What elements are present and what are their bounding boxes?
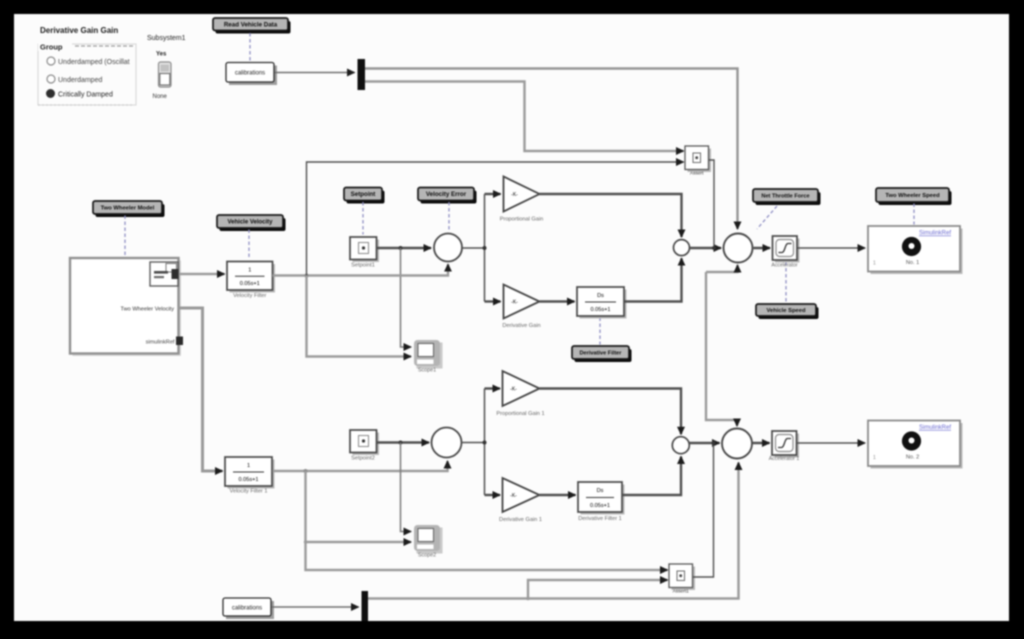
sum big sum2 — [722, 429, 752, 459]
junction — [304, 469, 308, 473]
wire split vertical 1 — [484, 194, 486, 302]
wire feedback1 to sum1 bottom — [273, 264, 449, 275]
connector to subsystem — [124, 216, 126, 257]
svg-text:0.05s+1: 0.05s+1 — [590, 307, 610, 313]
svg-text:calibrations: calibrations — [232, 605, 262, 611]
label Velocity Error — [418, 188, 477, 204]
svg-text:Scope1: Scope1 — [418, 368, 436, 374]
svg-text:Derivative Gain Gain: Derivative Gain Gain — [40, 26, 118, 35]
radio Underdamped — [47, 75, 55, 83]
svg-text:1: 1 — [248, 268, 251, 274]
label Vehicle Speed — [756, 304, 819, 319]
gain D1 — [502, 285, 540, 330]
wire TF2 to small sum2 bottom — [623, 457, 682, 496]
switch Subsystem1 — [147, 35, 186, 100]
connector to saturation1 — [785, 262, 787, 303]
svg-text:-K-: -K- — [511, 192, 518, 198]
svg-text:Vehicle Speed: Vehicle Speed — [767, 308, 806, 314]
svg-text:Velocity Filter 1: Velocity Filter 1 — [230, 489, 268, 495]
svg-text:-K-: -K- — [510, 387, 517, 393]
svg-text:Derivative Filter 1: Derivative Filter 1 — [578, 516, 622, 522]
junction — [526, 597, 530, 601]
svg-text:Group: Group — [40, 43, 63, 52]
junction — [304, 540, 307, 543]
connector to big sum1 (diagonal) — [757, 206, 777, 229]
wire setpoint1 to sum1 — [377, 247, 432, 249]
saturation saturation2 — [769, 431, 800, 462]
svg-text:Ds: Ds — [597, 488, 604, 494]
subsystem sensor sub-block — [150, 262, 179, 286]
calibration block calibrations2 — [223, 598, 274, 619]
svg-text:None: None — [153, 94, 168, 100]
svg-text:Setpoint2: Setpoint2 — [351, 456, 375, 462]
wire bar2 branch to assertion2 in2 — [528, 580, 668, 599]
sum small sum1 — [674, 240, 690, 256]
constant Setpoint2 — [350, 430, 379, 462]
label Two Wheeler Speed — [876, 188, 952, 205]
transfer function Velocity Filter 2 — [225, 457, 275, 495]
wire feedback1 up to assertion1 in2 — [307, 162, 684, 276]
svg-text:Net Throttle Force: Net Throttle Force — [761, 194, 809, 200]
wire small sum1 to big sum1 — [690, 247, 721, 249]
wire sensor to velocity filter1 — [179, 273, 225, 275]
svg-text:Accelerator: Accelerator — [771, 263, 798, 269]
label Throttle Force — [753, 189, 821, 205]
svg-text:No. 2: No. 2 — [906, 455, 919, 461]
svg-text:Derivative Filter: Derivative Filter — [580, 351, 623, 357]
connector to scope1 — [913, 204, 915, 225]
connector to calibrations1 — [249, 33, 251, 61]
wire P1 to small sum1 top — [540, 194, 682, 237]
subsystem Two Wheeler — [70, 258, 183, 356]
svg-text:Scope2: Scope2 — [418, 553, 436, 559]
scope display vehicle display 1 — [868, 226, 963, 274]
wire subsystem to velocity filter2 — [179, 308, 223, 471]
svg-text:1: 1 — [873, 455, 876, 461]
svg-text:Derivative Gain 1: Derivative Gain 1 — [499, 517, 542, 523]
transfer function Derivative TF 1 — [577, 287, 627, 319]
radio Underdamped (Oscillatory) — [47, 57, 55, 65]
scope Scope1 — [414, 340, 443, 374]
wire to D2 — [485, 494, 501, 496]
sum big sum1 — [724, 234, 753, 263]
svg-text:1: 1 — [247, 463, 250, 469]
transfer function Velocity Filter 1 — [227, 262, 275, 300]
wire sum2 out — [462, 442, 485, 444]
wire saturation2 to display2 — [797, 442, 866, 444]
saturation saturation1 — [771, 236, 799, 269]
junction — [483, 246, 487, 250]
wire cross down into big sum2 top — [706, 272, 737, 426]
svg-text:SimulinkRef: SimulinkRef — [919, 231, 951, 237]
wire big sum2 to saturation2 — [753, 442, 770, 444]
svg-text:0.05s+1: 0.05s+1 — [238, 477, 258, 483]
svg-text:Assert1: Assert1 — [673, 589, 690, 595]
svg-text:simulinkRef: simulinkRef — [146, 340, 175, 346]
gain P2 — [496, 371, 544, 417]
wire bar to assertion1 in1 — [365, 82, 684, 152]
svg-text:0.05s+1: 0.05s+1 — [590, 503, 610, 509]
svg-text:Two Wheeler Speed: Two Wheeler Speed — [885, 193, 940, 199]
junction — [305, 274, 309, 278]
label Two Wheeler Model — [93, 201, 165, 217]
svg-text:-K-: -K- — [510, 493, 517, 499]
svg-text:Velocity Filter: Velocity Filter — [233, 293, 266, 299]
wire big sum1 to saturation1 — [754, 247, 771, 249]
svg-text:Two Wheeler Velocity: Two Wheeler Velocity — [121, 307, 175, 313]
svg-text:Derivative Gain: Derivative Gain — [502, 323, 540, 329]
wire sum1 out — [463, 247, 485, 249]
calibration block calibrations1 — [226, 63, 277, 86]
wire small sum2 to big sum2 — [690, 442, 720, 444]
wire setpoint2 to sum2 — [377, 441, 430, 443]
svg-text:Underdamped (Oscillat: Underdamped (Oscillat — [58, 59, 130, 66]
svg-text:Read Vehicle Data: Read Vehicle Data — [224, 21, 278, 28]
wire to P2 — [485, 387, 501, 389]
svg-text:Setpoint1: Setpoint1 — [351, 263, 375, 269]
svg-text:Yes: Yes — [156, 52, 167, 58]
wire calib1 to bar — [275, 72, 355, 74]
wire D2 to TF2 — [540, 494, 576, 496]
wire bar to big sum1 top — [365, 69, 738, 230]
wire TF1 to small sum1 bottom — [625, 258, 682, 301]
svg-text:Critically Damped: Critically Damped — [58, 92, 113, 99]
wire bar2 to big sum2 bottom — [368, 463, 739, 599]
svg-text:Proportional Gain 1: Proportional Gain 1 — [496, 411, 544, 417]
wire assertion2 link up — [693, 445, 714, 577]
wire P2 to small sum2 top — [540, 389, 682, 435]
scope Scope2 — [414, 525, 443, 559]
label Vehicle Velocity — [217, 215, 286, 231]
wire cross up into big sum1 bottom — [706, 265, 738, 272]
connector to setpoint1 — [362, 202, 364, 235]
junction — [399, 246, 403, 250]
wire feedback2 to assertion2 in1 — [306, 542, 668, 570]
svg-text:calibrations: calibrations — [235, 71, 265, 77]
svg-text:Ds: Ds — [597, 293, 604, 299]
wire feedback1 down to scope1 in2 — [307, 276, 412, 357]
svg-text:No. 1: No. 1 — [906, 260, 919, 266]
label Derivative Filter — [572, 346, 632, 362]
wire saturation1 to display1 — [798, 247, 866, 249]
wire assertion1 link down — [709, 160, 715, 246]
wire calib2 to bar2 — [272, 606, 359, 608]
constant Setpoint1 — [350, 237, 379, 269]
panel Derivative Gain group — [38, 26, 136, 105]
gain P1 — [500, 177, 544, 223]
wire to P1 — [485, 193, 501, 195]
mux bar bottom — [362, 591, 369, 621]
svg-text:Subsystem1: Subsystem1 — [147, 35, 186, 42]
assertion block assertion1 — [685, 146, 711, 177]
label Setpoint — [344, 188, 385, 204]
scope display vehicle display 2 — [868, 421, 963, 469]
svg-text:Assert: Assert — [690, 171, 704, 177]
mux bar top — [358, 59, 366, 90]
svg-text:1: 1 — [873, 261, 876, 267]
svg-text:Proportional Gain: Proportional Gain — [500, 217, 544, 223]
label Read Vehicle Data — [213, 18, 291, 34]
sum small sum2 — [672, 437, 689, 454]
connector to velocity filter — [248, 230, 250, 260]
wire setpoint2 branch to scope2 in1 — [401, 443, 412, 532]
junction — [399, 441, 403, 445]
svg-text:Setpoint: Setpoint — [351, 191, 376, 198]
radio Critically Damped (selected) — [46, 89, 55, 98]
wire to D1 — [485, 300, 501, 302]
svg-text:Underdamped: Underdamped — [58, 77, 102, 84]
junction — [483, 441, 487, 445]
svg-text:Two Wheeler Model: Two Wheeler Model — [101, 206, 155, 212]
svg-text:-K-: -K- — [511, 300, 518, 306]
wire split vertical 2 — [484, 389, 486, 496]
svg-text:0.05s+1: 0.05s+1 — [240, 281, 260, 287]
svg-text:Accelerator 1: Accelerator 1 — [769, 456, 800, 462]
wire feedback2 to sum2 bottom — [273, 461, 448, 471]
junction — [712, 441, 716, 445]
wire feedback2 down branch — [306, 471, 412, 542]
connector to derivative filter — [599, 318, 601, 345]
svg-text:SimulinkRef: SimulinkRef — [919, 425, 951, 431]
assertion block assertion2 — [669, 564, 695, 595]
svg-text:Vehicle Velocity: Vehicle Velocity — [227, 220, 273, 226]
connector to sum1 — [448, 202, 450, 231]
junction — [712, 246, 716, 250]
sum sum1 — [434, 234, 462, 262]
transfer function Derivative TF 2 — [578, 482, 625, 522]
svg-text:Velocity Error: Velocity Error — [426, 191, 467, 198]
sum sum2 — [432, 428, 462, 458]
gain D2 — [499, 478, 542, 523]
wire setpoint1 branch to scope1 in1 — [401, 248, 412, 347]
wire D1 to TF1 — [540, 300, 575, 302]
